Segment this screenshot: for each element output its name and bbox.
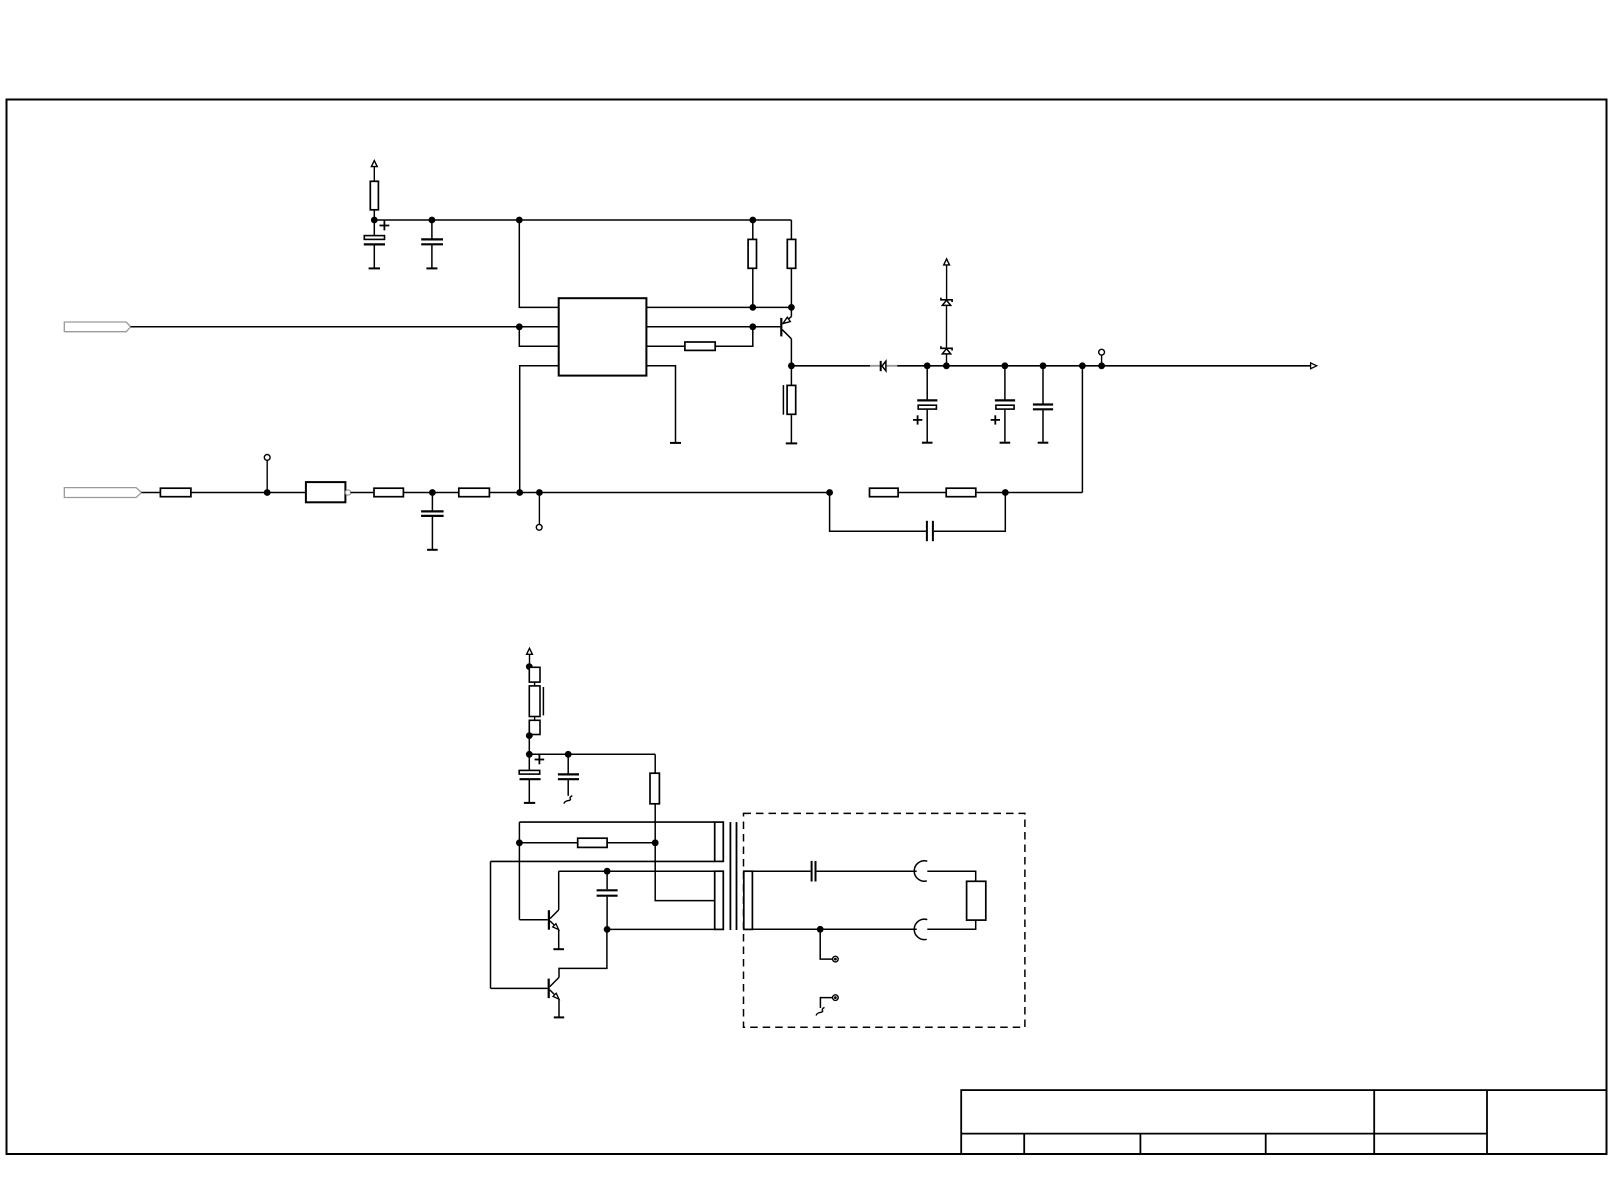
- wire pin2 node to U1 pin3: [519, 327, 558, 346]
- power arrow P3: [527, 648, 533, 666]
- node base row: [749, 323, 756, 330]
- node C10 bottom: [604, 926, 611, 933]
- wire R10 to riser: [976, 492, 1083, 494]
- wire load to CN2: [927, 920, 975, 929]
- node pin4 net: [516, 489, 523, 496]
- wire R7 to R8: [403, 492, 458, 494]
- node rail-C2: [429, 217, 436, 224]
- node riser: [1079, 362, 1086, 369]
- node chain bottom: [526, 732, 533, 739]
- wire riser output to feedback line: [1081, 366, 1083, 493]
- output arrow: [1311, 363, 1317, 369]
- fuse box B1: [529, 667, 540, 682]
- transistor Q1 (PNP): [781, 307, 791, 365]
- capacitor C6: [421, 493, 444, 550]
- wire R1 to rail: [373, 210, 375, 220]
- wire U1 right pin1 row: [646, 306, 791, 308]
- transformer secondary winding W3: [744, 871, 753, 929]
- capacitor C8 (electrolytic): [519, 754, 544, 803]
- wire winding W1 bottom lead: [491, 860, 715, 862]
- wire rail corner down to R11: [654, 754, 656, 773]
- wire stub B1-B2: [534, 682, 536, 686]
- node R2 bottom: [749, 304, 756, 311]
- wire common to terminal T4: [820, 929, 833, 959]
- transistor Q2b (lower NPN): [491, 929, 607, 1017]
- node feedback right: [1002, 489, 1009, 496]
- wire FL1 to R7: [351, 492, 374, 494]
- diode D1: [881, 361, 886, 371]
- wire R4 to base node: [715, 327, 753, 346]
- capacitor C5 (ceramic): [1033, 366, 1053, 443]
- resistor R7: [374, 488, 403, 497]
- resistor R9: [870, 488, 899, 497]
- wire W3 bottom lead: [752, 928, 916, 930]
- wire oscillator rail: [529, 753, 655, 755]
- resistor R10: [946, 488, 976, 497]
- node R12 left: [516, 839, 523, 846]
- wire J2 to R6: [142, 492, 161, 494]
- capacitor C9 (ceramic) with chassis hook: [558, 754, 579, 803]
- wire winding W1 top lead: [519, 821, 714, 823]
- capacitor C10: [597, 871, 618, 929]
- wire output line: [791, 365, 870, 367]
- capacitor C2 (ceramic): [421, 220, 443, 268]
- wire U1 pin4 to lower net: [520, 366, 559, 493]
- wire W3 top lead: [752, 870, 810, 872]
- input flag J1: [64, 322, 130, 332]
- resistor R12: [519, 838, 655, 847]
- node T2: [264, 489, 271, 496]
- resistor R6: [160, 488, 191, 497]
- resistor R3: [787, 220, 795, 307]
- connector contact CN1: [914, 861, 927, 881]
- terminal T1: [1099, 349, 1105, 365]
- FL1 output circle: [345, 490, 350, 495]
- zener ZD1: [941, 298, 952, 348]
- node feedback left: [826, 489, 833, 496]
- node chain top: [526, 663, 533, 670]
- power arrow P1 (VCC top-left): [371, 161, 377, 182]
- node rail-R2: [749, 217, 756, 224]
- node C10 top: [604, 868, 611, 875]
- terminal T2: [264, 455, 270, 493]
- wire R9 to R10: [898, 492, 946, 494]
- node C6: [429, 489, 436, 496]
- fuse box B3: [529, 720, 540, 734]
- node rail-IC: [516, 217, 523, 224]
- node rail C8: [526, 751, 533, 758]
- node zener column: [943, 362, 950, 369]
- wire input line to U1 pin2: [131, 326, 559, 328]
- terminal T3: [536, 493, 542, 531]
- transformer primary winding W2: [715, 871, 724, 929]
- wire U1 right pin3: [646, 345, 685, 347]
- node terminal: [1098, 362, 1105, 369]
- power arrow P2: [944, 259, 950, 299]
- transistor Q2a (upper NPN): [519, 871, 564, 949]
- input flag J2: [64, 488, 141, 498]
- node C3: [924, 362, 931, 369]
- terminal T5 with chassis hook: [816, 995, 838, 1016]
- filter box FL1: [306, 482, 346, 502]
- zener ZD2: [941, 346, 952, 366]
- load resistor R13: [967, 881, 986, 920]
- wire rail to U1 pin1: [519, 220, 558, 307]
- capacitor C3 (electrolytic): [913, 366, 937, 443]
- node C4: [1002, 362, 1009, 369]
- resistor R1: [370, 181, 378, 210]
- dashed enclosure box: [744, 813, 1025, 1027]
- wire W2 bottom lead: [607, 928, 715, 930]
- resistor R2: [748, 220, 756, 307]
- title block table: [961, 1090, 1606, 1154]
- wire chain to rail: [528, 735, 530, 755]
- wire tap node down to center tap: [655, 843, 715, 901]
- node Q1 collector: [788, 362, 795, 369]
- node rail C9: [565, 751, 572, 758]
- wire top supply rail: [374, 219, 791, 221]
- wire W2 top lead / Q1 collector run: [559, 870, 715, 872]
- wire R6 to FL1: [191, 492, 306, 494]
- node R3 bottom / Q1 emitter: [788, 304, 795, 311]
- transformer primary winding W1: [715, 822, 724, 861]
- resistor R11: [650, 773, 659, 804]
- capacitor C1 (electrolytic): [364, 220, 390, 268]
- node T3: [536, 489, 543, 496]
- transformer core: [729, 822, 731, 930]
- resistor R4: [685, 342, 715, 350]
- wire far-left column to Q2 base: [490, 861, 492, 988]
- wire R11 to tap node: [654, 804, 656, 843]
- node rail-R1: [371, 217, 378, 224]
- node secondary common: [817, 926, 824, 933]
- wire U1 right pin2 to Q1 base: [646, 326, 780, 328]
- connector contact CN2: [914, 919, 927, 939]
- resistor R5 with parallel mark: [783, 366, 797, 444]
- resistor box B2 with side mark: [529, 686, 540, 717]
- node tap: [652, 839, 659, 846]
- node C5: [1040, 362, 1047, 369]
- capacitor C11 (series): [812, 861, 917, 882]
- capacitor C4 (electrolytic): [991, 366, 1015, 443]
- wire left column to Q1 base: [518, 822, 520, 920]
- resistor R8: [459, 488, 490, 497]
- capacitor C7 bridge: [830, 493, 1006, 542]
- node input pin2: [516, 323, 523, 330]
- wire stub B2-B3: [534, 717, 536, 721]
- terminal T4: [833, 956, 839, 962]
- ground U1: [670, 442, 681, 444]
- wire R8 to bridge node: [489, 492, 829, 494]
- op-amp/regulator U1: [559, 298, 647, 375]
- wire CN1 to load: [927, 871, 975, 881]
- wire U1 pin ground: [646, 366, 675, 443]
